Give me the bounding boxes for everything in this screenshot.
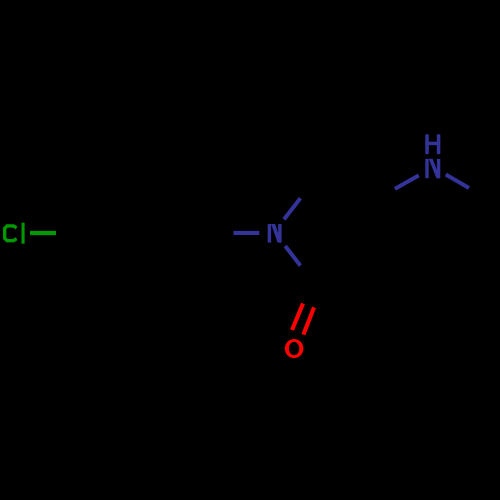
atom label H (on secondary amine N) <box>425 134 440 154</box>
bond NH-C left (blue half, diagonal down-left) <box>395 175 419 189</box>
atom label O (carbonyl oxygen) <box>285 339 304 358</box>
double bond C=O line 1 (red half) <box>292 304 303 330</box>
atom label Cl (chlorine) <box>5 223 25 244</box>
bond N-C upper (blue half, diagonal up-right) <box>284 198 300 219</box>
atom label N (secondary amine nitrogen) <box>425 159 440 178</box>
bond N-C lower (blue half, diagonal down-right) <box>285 246 300 266</box>
double bond C=O line 2 (red half) <box>303 307 314 334</box>
bond C-N (amide N half, blue, horizontal) <box>234 231 260 235</box>
bond NH-C right (blue half, diagonal down-right) <box>446 175 469 189</box>
bond Cl-C (chlorine half, green) <box>30 231 56 235</box>
atom label N (ring amide nitrogen) <box>268 224 282 243</box>
